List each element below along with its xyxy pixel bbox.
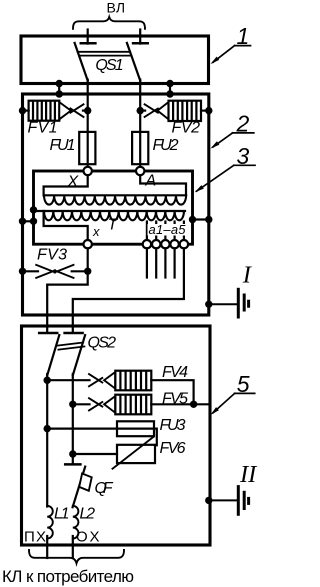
- wire FV4 to junction: [151, 380, 193, 404]
- brace ВЛ overhead line: [73, 17, 145, 29]
- arrester FV5 row: [73, 403, 90, 405]
- terminal X: [84, 167, 92, 175]
- terminal x: [84, 240, 92, 248]
- fuse FU3 lead: [47, 428, 154, 430]
- wire tap a3: [164, 222, 166, 241]
- svg-text:T: T: [108, 216, 119, 233]
- junction earth I to frame: [205, 301, 212, 308]
- fuse FU2: [132, 132, 148, 164]
- junction FV1 to frame: [19, 107, 26, 114]
- terminal a4: [170, 240, 178, 248]
- junction frame bond right outer: [205, 216, 212, 223]
- svg-text:FU2: FU2: [153, 137, 179, 154]
- arrester FV6 lead: [73, 453, 117, 455]
- wire stub a1: [146, 248, 148, 277]
- arrester FV1 horn: [59, 102, 71, 119]
- disconnector QS2 left blade: [47, 335, 59, 375]
- disconnector QS1 right blade: [127, 43, 140, 81]
- wire tap a2: [155, 222, 157, 241]
- arrester FV6 body: [117, 445, 155, 463]
- brace КЛ cable: [29, 550, 124, 563]
- junction earth II to frame: [205, 497, 212, 504]
- enclosure box 5: [22, 326, 211, 545]
- tap terminals a1-a5: [143, 240, 188, 248]
- callout 1 arrowhead: [210, 57, 219, 65]
- junction frame link left top: [56, 80, 63, 87]
- callout 3 arrowhead: [195, 185, 204, 192]
- arrester FV2 gap arrow: [145, 104, 158, 112]
- arrester FV2 lead: [201, 109, 209, 111]
- svg-text:FV4: FV4: [162, 364, 188, 381]
- terminal A: [136, 167, 144, 175]
- arrester FV2 horn: [158, 102, 169, 119]
- wire stub a4: [174, 248, 176, 277]
- transformer T primary winding: [44, 194, 186, 196]
- reactor L1: [47, 506, 53, 539]
- svg-text:L2: L2: [80, 505, 96, 522]
- junction frame bond left inner: [30, 218, 37, 225]
- svg-text:x: x: [92, 224, 100, 239]
- breaker QF fixed contact: [72, 454, 74, 463]
- junction FV2 to frame: [205, 107, 212, 114]
- wire terminal x down: [87, 248, 89, 271]
- junction secondary neutral to tank: [30, 206, 37, 213]
- junction FU3 to wire LV1: [44, 425, 51, 432]
- terminal a2: [152, 240, 160, 248]
- wire LV1 down: [46, 374, 48, 507]
- junction FV4-FV5 tie: [190, 401, 197, 408]
- wire FV5 to frame: [151, 403, 209, 405]
- junction FV2 to HV wire right: [137, 107, 144, 114]
- disconnector QS1 left fixed contact: [81, 42, 96, 45]
- wire tap a1: [146, 222, 148, 241]
- wire tap a4: [174, 222, 176, 241]
- earthing I lead: [209, 303, 237, 305]
- terminal a1: [143, 240, 151, 248]
- frame bond box3 right: [193, 218, 209, 220]
- junction frame bond right inner: [189, 216, 196, 223]
- wire x jog to QS2 left: [47, 271, 87, 333]
- breaker QF blade: [73, 467, 86, 508]
- svg-text:L1: L1: [54, 505, 70, 522]
- QS1 linkage: [78, 51, 130, 53]
- junction FV6 to wire LV2: [69, 450, 76, 457]
- wire L1 to exit ПХ: [46, 536, 48, 558]
- FV6 diagonal: [113, 437, 154, 469]
- enclosure box 2: [23, 94, 209, 315]
- svg-text:QS1: QS1: [95, 57, 123, 74]
- junction frame link right top: [166, 80, 173, 87]
- disconnector QS2 left fixed contact: [39, 332, 57, 335]
- disconnector QS2 right fixed contact: [65, 332, 83, 335]
- arrester FV1 lead: [23, 109, 29, 111]
- transformer T primary lead A: [140, 175, 186, 195]
- junction FV1 to HV wire left: [84, 107, 91, 114]
- disconnector QS1 left blade: [75, 43, 88, 81]
- arrester FV5 body: [115, 395, 151, 415]
- junction frame link left bottom: [56, 90, 63, 97]
- svg-text:FV1: FV1: [28, 119, 58, 136]
- callout 2 arrowhead: [210, 141, 219, 148]
- earth electrode I: [237, 289, 240, 317]
- callout 5 arrowhead: [210, 407, 219, 415]
- wire ВЛ drop right: [139, 30, 141, 44]
- junction FV5 to wire LV2: [69, 401, 76, 408]
- wire left HV down to transformer: [87, 80, 89, 168]
- enclosure box 1: [21, 36, 209, 84]
- terminal a5: [180, 240, 188, 248]
- svg-text:ПХ: ПХ: [24, 529, 46, 546]
- svg-text:a1–a5: a1–a5: [149, 222, 187, 237]
- frame bond box3 left: [23, 220, 34, 222]
- terminal a3: [161, 240, 169, 248]
- frame link right: [169, 84, 171, 95]
- arrester FV2 body: [169, 101, 202, 121]
- svg-text:QS2: QS2: [88, 334, 117, 351]
- arrester FV4 body: [115, 371, 151, 391]
- junction frame bond left outer: [19, 218, 26, 225]
- breaker QF flag: [79, 474, 92, 491]
- svg-text:QF: QF: [95, 480, 114, 497]
- QS2 linkage: [57, 343, 83, 346]
- svg-text:КЛ к потребителю: КЛ к потребителю: [2, 567, 134, 586]
- wire right HV down to transformer: [139, 80, 141, 167]
- svg-text:II: II: [239, 461, 258, 488]
- fuse FU1: [79, 132, 95, 164]
- svg-text:A: A: [145, 173, 157, 190]
- enclosure box 3 transformer tank: [34, 171, 193, 244]
- svg-text:FV5: FV5: [162, 391, 188, 408]
- junction FV3 to frame: [19, 268, 26, 275]
- transformer T secondary winding: [34, 210, 186, 212]
- wire tap a5: [183, 222, 185, 241]
- reactor L2: [73, 506, 79, 539]
- wire L2 to exit ОХ: [72, 536, 74, 558]
- disconnector QS1 right fixed contact: [133, 42, 148, 45]
- wire tap a5 to QS2 right: [73, 248, 184, 333]
- arrester FV4 row: [47, 379, 89, 381]
- svg-text:ВЛ: ВЛ: [107, 0, 126, 16]
- arrester FV1 body: [29, 101, 60, 121]
- arrester FV1 gap arrow: [70, 104, 83, 112]
- wire ВЛ drop left: [87, 30, 89, 44]
- svg-text:FV2: FV2: [172, 119, 201, 136]
- svg-text:X: X: [67, 174, 80, 191]
- svg-text:FU1: FU1: [50, 137, 76, 154]
- arrester FV5 horn: [104, 396, 115, 413]
- fuse FU3: [117, 421, 154, 436]
- arrester FV4 horn: [104, 372, 115, 389]
- transformer T primary lead X: [44, 175, 88, 195]
- wire stub a3: [164, 248, 166, 277]
- junction FV4 to wire LV1: [44, 377, 51, 384]
- frame link left: [58, 84, 60, 95]
- spark gap FV3: [23, 270, 39, 272]
- svg-text:FV6: FV6: [160, 440, 186, 457]
- earthing II lead: [209, 499, 237, 501]
- junction FV3 to wire x: [84, 268, 91, 275]
- disconnector QS2 right blade: [73, 335, 85, 375]
- svg-text:FV3: FV3: [37, 246, 67, 263]
- wire stub a2: [155, 248, 157, 277]
- transformer secondary lead to terminal x: [44, 211, 88, 240]
- link FU3 to FV6: [154, 429, 157, 446]
- wire LV2 down: [72, 374, 74, 454]
- svg-text:FU3: FU3: [160, 417, 186, 434]
- earth electrode II: [237, 487, 240, 515]
- junction frame link right bottom: [166, 90, 173, 97]
